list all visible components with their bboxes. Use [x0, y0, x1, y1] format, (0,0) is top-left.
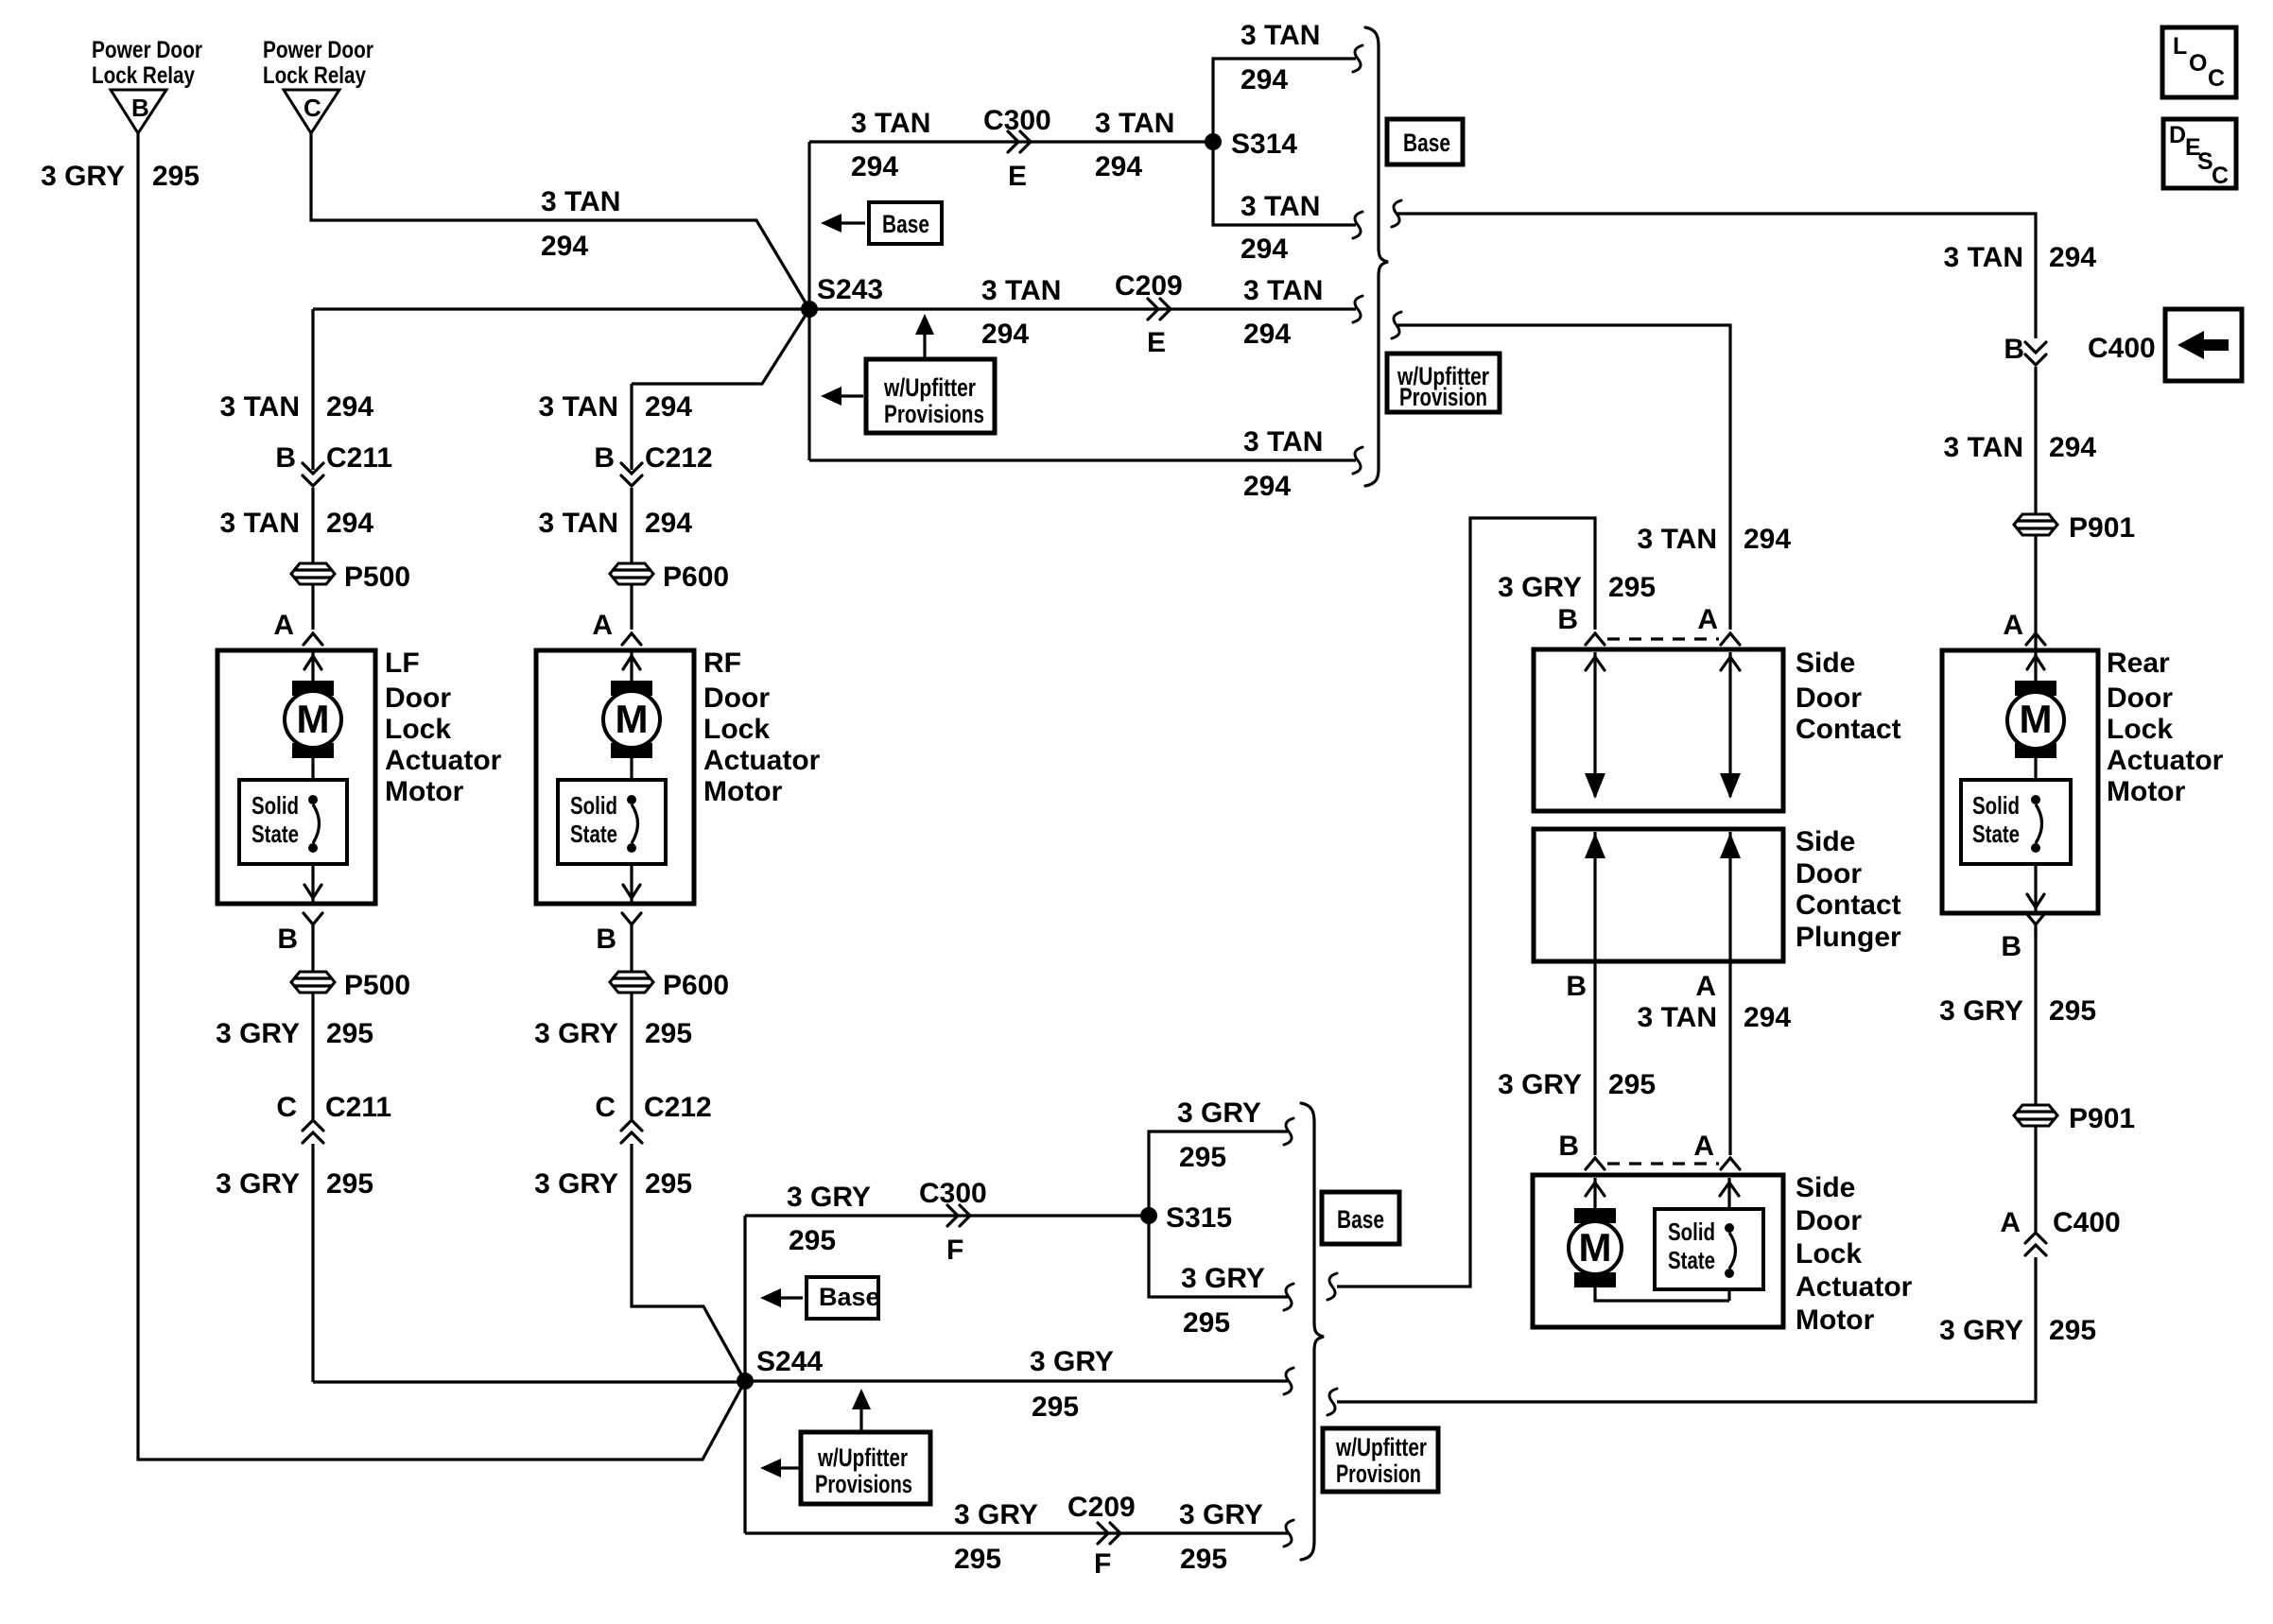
plunger wire A through box down to side door lock: [1728, 832, 1731, 1155]
Base option box (right of top brace): [1387, 119, 1463, 164]
svg-text:Solid: Solid: [570, 791, 617, 820]
arrowheads inside side door lock box: [1586, 1183, 1739, 1196]
label 3 TAN 294 (RF above C212): [539, 391, 693, 423]
connector C209 chevrons pin F: [1067, 1492, 1136, 1580]
label 3 TAN 294 (side door contact pin A feed): [1638, 524, 1792, 555]
svg-text:Motor: Motor: [385, 776, 464, 807]
connector hook above LF box: [304, 633, 322, 645]
wire C400 A down and left to lower brace: [1337, 1257, 2036, 1402]
svg-text:295: 295: [2049, 1315, 2096, 1346]
svg-text:295: 295: [954, 1544, 1001, 1575]
splice S244 vertical bus wire: [743, 1216, 746, 1533]
svg-text:P500: P500: [344, 970, 410, 1001]
svg-text:3 TAN: 3 TAN: [851, 108, 930, 139]
svg-text:Solid: Solid: [1668, 1218, 1715, 1246]
svg-text:A: A: [273, 610, 294, 641]
wire S315 upper branch: [1149, 1132, 1288, 1216]
svg-text:E: E: [1147, 327, 1166, 358]
svg-text:294: 294: [1095, 151, 1142, 182]
connector C209 chevrons pin E: [1115, 270, 1183, 358]
label 3 GRY 295 (S244 middle branch): [1030, 1346, 1114, 1423]
svg-text:3 GRY: 3 GRY: [41, 161, 125, 192]
wire break hook (S244 bottom branch end): [1284, 1520, 1293, 1546]
connector C211 pin B chevrons: [275, 442, 392, 486]
wire S243 diagonal branch to RF door vertical: [632, 309, 809, 384]
svg-text:294: 294: [326, 391, 373, 423]
svg-text:3 GRY: 3 GRY: [1939, 995, 2023, 1027]
svg-text:C: C: [595, 1092, 616, 1123]
label 3 TAN 294 (LF below C211): [220, 508, 374, 539]
svg-text:3 GRY: 3 GRY: [534, 1168, 618, 1200]
label 3 GRY 295 (relay B wire): [41, 161, 200, 192]
w/Upfitter Provisions option box with arrows (bottom): [760, 1389, 930, 1504]
wire S243 top branch to C300 and S314: [809, 140, 1213, 143]
svg-text:LF: LF: [385, 648, 420, 679]
wire side door contact pin B up over and down to lower brace: [1337, 518, 1595, 1287]
svg-text:State: State: [1972, 820, 2020, 848]
motor branch wire B inside side door lock box: [1595, 1178, 1729, 1301]
label 3 GRY 295 (LF bottom): [216, 1168, 373, 1200]
svg-text:Lock: Lock: [1796, 1238, 1862, 1270]
LOC reference box: [2162, 27, 2236, 97]
label 3 GRY 295 (RF below P600): [534, 1018, 692, 1049]
svg-text:C: C: [2212, 163, 2229, 189]
svg-text:3 TAN: 3 TAN: [1241, 20, 1320, 51]
wire S243 middle branch right to C209: [809, 307, 1356, 310]
label 3 GRY 295 (side door contact pin B wire): [1498, 572, 1656, 603]
svg-text:294: 294: [981, 319, 1029, 350]
splice S243 junction dot: [801, 274, 883, 318]
svg-text:A: A: [1695, 971, 1716, 1002]
left arrow reference box: [2165, 309, 2242, 381]
wire RF box to C212 lower: [632, 936, 745, 1381]
svg-text:3 TAN: 3 TAN: [1944, 242, 2023, 273]
svg-text:295: 295: [645, 1168, 692, 1200]
connector C212 pin C chevrons: [595, 1092, 711, 1143]
svg-text:S314: S314: [1231, 129, 1297, 160]
svg-text:3 TAN: 3 TAN: [220, 508, 300, 539]
svg-text:294: 294: [326, 508, 373, 539]
svg-text:295: 295: [1180, 1544, 1227, 1575]
svg-text:3 TAN: 3 TAN: [220, 391, 300, 423]
wire C400 B to P901: [2034, 367, 2037, 650]
svg-text:S244: S244: [756, 1346, 823, 1377]
svg-text:w/Upfitter: w/Upfitter: [817, 1443, 908, 1472]
svg-text:State: State: [570, 820, 617, 848]
wire S243 left branch to LF door vertical: [313, 307, 809, 310]
svg-text:3 GRY: 3 GRY: [1181, 1263, 1265, 1294]
wire break hook (S315 lower branch end): [1284, 1284, 1293, 1310]
svg-text:294: 294: [1241, 64, 1288, 95]
RF Door Lock Actuator Motor label: [703, 648, 821, 807]
wire break hook (upfitter group feed to side door contact): [1392, 312, 1401, 338]
svg-text:C400: C400: [2088, 333, 2156, 364]
svg-text:B: B: [2001, 931, 2021, 962]
Power Door Lock Relay C label: [263, 37, 373, 89]
svg-text:P500: P500: [344, 561, 410, 593]
label 3 TAN 294 (rear door feed upper): [1944, 242, 2097, 273]
Side Door Lock Actuator Motor label: [1796, 1172, 1913, 1336]
svg-text:Base: Base: [882, 210, 929, 238]
svg-text:294: 294: [2049, 432, 2096, 463]
svg-text:3 TAN: 3 TAN: [1095, 108, 1174, 139]
svg-text:3 TAN: 3 TAN: [539, 391, 618, 423]
label 3 TAN 294 (right of C209): [1243, 275, 1323, 350]
svg-text:Lock Relay: Lock Relay: [92, 62, 195, 89]
connector C300 chevrons pin F: [919, 1178, 987, 1266]
wire inside rear door box: [2034, 652, 2037, 911]
svg-text:Actuator: Actuator: [703, 745, 821, 776]
solid state box (LF): [239, 780, 347, 864]
motor M symbol (LF): [285, 681, 341, 758]
svg-text:P600: P600: [663, 561, 729, 593]
pass-through grommet P500 (upper): [291, 561, 410, 593]
connector C211 pin C chevrons: [276, 1092, 391, 1143]
Side Door Contact Plunger label: [1796, 826, 1901, 953]
Side Door Contact label: [1796, 648, 1901, 745]
svg-text:3 GRY: 3 GRY: [1179, 1499, 1263, 1530]
wire break hook (S243 bottom branch end): [1353, 447, 1362, 474]
wire break hook (S314 lower branch end): [1353, 212, 1362, 238]
svg-text:3 GRY: 3 GRY: [787, 1182, 871, 1213]
svg-text:State: State: [1668, 1246, 1715, 1274]
label 3 GRY 295 (above corner): [1939, 1315, 2096, 1346]
label 3 TAN 294 (plunger A wire): [1638, 1002, 1792, 1033]
wire break hook (S244 middle branch end): [1284, 1368, 1293, 1394]
label 3 GRY 295 (plunger B wire): [1498, 1069, 1656, 1100]
svg-text:294: 294: [851, 151, 898, 182]
svg-text:Door: Door: [1796, 682, 1862, 714]
connector C300 chevrons pin E: [983, 105, 1051, 192]
svg-text:M: M: [2020, 697, 2053, 741]
svg-text:Lock: Lock: [385, 714, 451, 745]
wire break hook (C209 branch end): [1353, 296, 1362, 322]
label 3 GRY 295 (RF bottom): [534, 1168, 692, 1200]
svg-text:295: 295: [789, 1225, 836, 1256]
svg-text:3 GRY: 3 GRY: [534, 1018, 618, 1049]
svg-text:295: 295: [152, 161, 200, 192]
connector hook below rear door box: [2026, 913, 2045, 936]
svg-text:Actuator: Actuator: [385, 745, 502, 776]
motor M symbol (rear door): [2007, 681, 2064, 758]
svg-text:Power Door: Power Door: [263, 37, 373, 63]
label 3 GRY 295 (left of C300 F): [787, 1182, 871, 1256]
connector hook above rear door box: [2026, 633, 2045, 645]
svg-text:P600: P600: [663, 970, 729, 1001]
svg-text:State: State: [252, 820, 299, 848]
svg-text:3 GRY: 3 GRY: [1030, 1346, 1114, 1377]
svg-text:B: B: [1557, 604, 1578, 635]
RF door lock actuator motor box: [536, 650, 694, 904]
svg-text:295: 295: [326, 1168, 373, 1200]
svg-text:294: 294: [1744, 1002, 1791, 1033]
svg-text:Motor: Motor: [2107, 776, 2186, 807]
pass-through grommet P901 (upper): [2014, 512, 2135, 544]
pass-through grommet P600 (lower): [610, 970, 729, 1001]
rear door lock actuator motor box: [1942, 650, 2098, 913]
svg-text:294: 294: [1243, 471, 1291, 502]
connector C400 pin B chevrons: [2004, 333, 2155, 365]
arrowheads inside LF box: [304, 656, 321, 898]
svg-text:M: M: [616, 697, 649, 741]
svg-text:3 GRY: 3 GRY: [216, 1018, 300, 1049]
svg-text:Provisions: Provisions: [815, 1470, 912, 1498]
wire break hook (S315 upper branch end): [1284, 1118, 1293, 1145]
svg-text:294: 294: [541, 231, 588, 262]
label 3 GRY 295 (below rear door box): [1939, 995, 2096, 1027]
motor M symbol (side door lock): [1569, 1208, 1622, 1287]
svg-text:294: 294: [1241, 233, 1288, 265]
svg-text:M: M: [297, 697, 330, 741]
svg-text:294: 294: [1744, 524, 1791, 555]
svg-text:S315: S315: [1166, 1202, 1232, 1234]
wire LF bottom to S244: [313, 1380, 745, 1383]
splice S243 vertical bus wire: [807, 142, 810, 460]
wire 3 TAN 294 from relay C to splice S243: [311, 133, 809, 309]
svg-text:A: A: [2003, 610, 2023, 641]
labels B A above side door lock motor: [1558, 1131, 1714, 1162]
label 3 TAN 294 (relay C wire): [541, 186, 620, 262]
svg-text:295: 295: [1608, 572, 1656, 603]
svg-text:294: 294: [2049, 242, 2096, 273]
svg-text:E: E: [1008, 161, 1027, 192]
relay terminal triangle B: [111, 90, 166, 133]
svg-text:3 TAN: 3 TAN: [1638, 1002, 1717, 1033]
connector hooks and dashed line above side door contact: [1586, 633, 1740, 645]
svg-text:3 GRY: 3 GRY: [954, 1499, 1038, 1530]
wire base group to rear door lock column: [1397, 214, 2036, 338]
pass-through grommet P500 (lower): [291, 970, 410, 1001]
connector hook below RF box: [622, 913, 641, 936]
svg-text:3 TAN: 3 TAN: [1243, 275, 1323, 306]
svg-text:B: B: [2004, 334, 2024, 365]
svg-text:Actuator: Actuator: [1796, 1271, 1913, 1303]
svg-text:Side: Side: [1796, 826, 1855, 857]
solid state box (RF): [558, 780, 666, 864]
svg-text:Side: Side: [1796, 1172, 1855, 1203]
svg-text:C300: C300: [983, 105, 1051, 136]
svg-text:Provision: Provision: [1399, 383, 1487, 411]
svg-text:Base: Base: [819, 1283, 880, 1311]
svg-text:Door: Door: [703, 682, 770, 714]
svg-text:B: B: [131, 94, 149, 122]
label 3 GRY 295 (right of C209 F): [1179, 1499, 1263, 1575]
svg-text:Motor: Motor: [1796, 1304, 1875, 1336]
svg-text:3 GRY: 3 GRY: [1498, 572, 1582, 603]
svg-text:A: A: [2000, 1207, 2021, 1238]
svg-text:Provisions: Provisions: [884, 400, 984, 428]
svg-text:3 TAN: 3 TAN: [1944, 432, 2023, 463]
connector C212 pin B chevrons: [594, 442, 712, 486]
wire RF column (C212 to RF box): [630, 488, 633, 630]
label 3 GRY 295 (left of C209 F): [954, 1499, 1038, 1575]
connector hook above RF box: [622, 633, 641, 645]
w/Upfitter Provision option box (right of top brace): [1387, 354, 1500, 412]
svg-text:3 GRY: 3 GRY: [1498, 1069, 1582, 1100]
svg-text:294: 294: [645, 391, 692, 423]
wire break hook (base group feed to rear door): [1392, 200, 1401, 227]
svg-text:C: C: [276, 1092, 297, 1123]
svg-text:Power Door: Power Door: [92, 37, 202, 63]
solid state box (side door lock): [1655, 1209, 1763, 1289]
svg-text:w/Upfitter: w/Upfitter: [1335, 1433, 1427, 1461]
svg-text:Door: Door: [385, 682, 451, 714]
svg-text:3 GRY: 3 GRY: [1939, 1315, 2023, 1346]
harness grouping brace (bottom): [1301, 1103, 1324, 1560]
pass-through grommet P901 (lower): [2014, 1103, 2135, 1134]
svg-text:Door: Door: [1796, 1205, 1862, 1236]
Rear Door Lock Actuator Motor label: [2107, 648, 2224, 807]
svg-text:295: 295: [1183, 1307, 1230, 1339]
svg-text:B: B: [275, 442, 296, 474]
svg-text:Solid: Solid: [252, 791, 299, 820]
svg-text:Lock: Lock: [2107, 714, 2173, 745]
label 3 GRY 295 (S315 upper branch): [1177, 1097, 1261, 1173]
connector C400 pin A chevrons: [2000, 1207, 2120, 1255]
svg-text:L: L: [2173, 33, 2187, 60]
side door contact plunger box: [1534, 829, 1783, 961]
svg-text:Door: Door: [2107, 682, 2173, 714]
svg-text:B: B: [594, 442, 615, 474]
DESC reference box: [2163, 119, 2236, 189]
pass-through grommet P600 (upper): [610, 561, 729, 593]
wire break hook (lower brace to side door B wire): [1327, 1273, 1337, 1300]
svg-text:F: F: [946, 1235, 963, 1266]
label 3 TAN 294 (RF below C212): [539, 508, 693, 539]
svg-text:3 TAN: 3 TAN: [1243, 426, 1323, 458]
svg-text:295: 295: [645, 1018, 692, 1049]
svg-text:Contact: Contact: [1796, 714, 1901, 745]
wire S244 top branch to C300 and S315: [745, 1214, 1149, 1217]
splice S244 junction dot: [737, 1346, 823, 1390]
label 3 TAN 294 (S243 bottom branch): [1243, 426, 1323, 502]
svg-text:B: B: [1558, 1131, 1579, 1162]
svg-text:C212: C212: [645, 442, 713, 474]
side door contact box: [1534, 649, 1783, 811]
svg-text:A: A: [592, 610, 613, 641]
splice S315 junction dot: [1140, 1202, 1232, 1234]
svg-text:295: 295: [1608, 1069, 1656, 1100]
svg-text:S243: S243: [817, 274, 883, 305]
svg-text:Side: Side: [1796, 648, 1855, 679]
label 3 TAN 294 (S314 upper branch): [1241, 20, 1320, 95]
wire S244 bottom branch to C209: [745, 1531, 1288, 1534]
svg-text:B: B: [596, 924, 616, 955]
svg-text:294: 294: [645, 508, 692, 539]
svg-text:3 TAN: 3 TAN: [539, 508, 618, 539]
w/Upfitter Provisions option box with arrows (top): [821, 314, 995, 433]
solid state branch wire A inside side door lock box: [1727, 1178, 1730, 1301]
arrowheads inside RF box: [623, 656, 640, 898]
svg-text:Lock: Lock: [703, 714, 770, 745]
label 3 TAN 294 (right of C300): [1095, 108, 1174, 182]
label 3 GRY 295 (S315 lower branch): [1181, 1263, 1265, 1339]
svg-text:D: D: [2169, 122, 2186, 148]
wire LF box to P500 lower: [311, 936, 314, 1382]
svg-text:3 GRY: 3 GRY: [1177, 1097, 1261, 1129]
connector hooks and dashed line above side door lock motor: [1586, 1158, 1740, 1169]
motor M symbol (RF): [603, 681, 660, 758]
svg-text:Base: Base: [1337, 1205, 1384, 1234]
svg-text:Base: Base: [1403, 129, 1450, 157]
svg-text:295: 295: [1179, 1142, 1226, 1173]
wire upfitter group to side door contact pin A: [1397, 325, 1730, 630]
svg-text:A: A: [1697, 604, 1718, 635]
svg-text:Motor: Motor: [703, 776, 783, 807]
svg-text:3 TAN: 3 TAN: [541, 186, 620, 217]
Base option box with left arrow (bottom): [760, 1277, 880, 1319]
svg-text:Door: Door: [1796, 858, 1862, 890]
svg-text:P901: P901: [2069, 512, 2135, 544]
wire S315 lower branch: [1149, 1216, 1288, 1297]
LF door lock actuator motor box: [217, 650, 375, 904]
svg-text:O: O: [2189, 50, 2207, 77]
side door lock actuator motor box: [1533, 1175, 1783, 1327]
label 3 TAN 294 (left of C300): [851, 108, 930, 182]
wire break hook (S314 upper branch end): [1353, 45, 1362, 72]
svg-text:Contact: Contact: [1796, 890, 1901, 921]
svg-text:295: 295: [326, 1018, 373, 1049]
wire LF column (C211 to LF box): [311, 488, 314, 630]
wire inside RF box: [630, 652, 633, 902]
label 3 TAN 294 (above P901): [1944, 432, 2097, 463]
svg-text:Lock Relay: Lock Relay: [263, 62, 366, 89]
relay terminal triangle C: [284, 90, 339, 133]
label 3 TAN 294 (left of C209): [981, 275, 1061, 350]
svg-text:C211: C211: [326, 442, 392, 474]
svg-text:B: B: [1566, 971, 1587, 1002]
svg-text:F: F: [1094, 1548, 1111, 1580]
arrowheads inside contact box: [1585, 657, 1741, 799]
svg-text:295: 295: [2049, 995, 2096, 1027]
svg-text:P901: P901: [2069, 1103, 2135, 1134]
arrowheads inside rear door box: [2027, 656, 2044, 907]
contact switch wire A inside contact box: [1728, 652, 1731, 797]
svg-text:RF: RF: [703, 648, 741, 679]
svg-text:C211: C211: [325, 1092, 391, 1123]
wire RF column upper (S243 to C212): [630, 384, 633, 470]
svg-text:C212: C212: [644, 1092, 712, 1123]
svg-text:3 TAN: 3 TAN: [981, 275, 1061, 306]
svg-text:295: 295: [1032, 1391, 1079, 1423]
wire S314 upper branch: [1213, 59, 1356, 142]
wire S314 lower branch: [1213, 142, 1356, 225]
wire break hook (lower brace to rear door wire): [1327, 1389, 1337, 1415]
connector hook below LF box: [304, 913, 322, 936]
svg-text:B: B: [277, 924, 298, 955]
wire 3 GRY 295 from relay B down to S244: [138, 133, 745, 1460]
wire inside LF box: [311, 652, 314, 902]
svg-text:A: A: [1693, 1131, 1714, 1162]
svg-text:C400: C400: [2053, 1207, 2121, 1238]
solid state box (rear door): [1961, 780, 2071, 864]
labels B A below plunger box: [1566, 971, 1716, 1002]
svg-text:C209: C209: [1115, 270, 1183, 302]
Base option box with left arrow (top): [821, 202, 942, 244]
contact switch wire B inside contact box: [1593, 652, 1596, 797]
wire S243 bottom branch: [809, 458, 1356, 461]
harness grouping brace (top): [1365, 27, 1388, 486]
svg-text:M: M: [1579, 1225, 1612, 1270]
svg-text:C: C: [304, 94, 321, 122]
svg-text:Provision: Provision: [1336, 1460, 1421, 1488]
svg-text:Rear: Rear: [2107, 648, 2170, 679]
svg-text:Actuator: Actuator: [2107, 745, 2224, 776]
svg-text:w/Upfitter: w/Upfitter: [883, 373, 976, 402]
svg-text:3 TAN: 3 TAN: [1241, 191, 1320, 222]
svg-text:3 TAN: 3 TAN: [1638, 524, 1717, 555]
svg-text:C: C: [2208, 65, 2225, 92]
